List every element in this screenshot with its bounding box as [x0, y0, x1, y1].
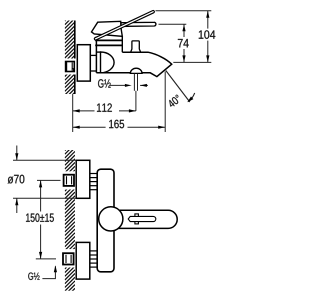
handle base: [92, 21, 123, 36]
lever slot bumps: [135, 214, 139, 224]
mixer body B2: [97, 169, 114, 272]
G1/2 arrows to aerator: [110, 84, 148, 87]
handle lever arm: [94, 10, 155, 40]
lever inner slot: [128, 216, 156, 221]
dimension 165: [73, 120, 166, 129]
escutcheon E3: [76, 242, 90, 279]
ribs R3: [90, 251, 97, 267]
label t165: 165: [109, 120, 124, 129]
spout outline: [96, 52, 171, 76]
diverter knob: [131, 41, 141, 52]
connector ribs (side view): [90, 55, 97, 71]
40 deg arc with arrow: [187, 93, 195, 102]
wall hatch (bottom view): [60, 140, 76, 300]
union nut S2: [64, 175, 74, 186]
spout tip ext line: [164, 72, 166, 133]
wall hatch (top view): [65, 11, 75, 114]
label t40: 40°: [167, 94, 182, 108]
handle grip bar: [121, 22, 156, 26]
cartridge dome (side): [101, 52, 115, 73]
escutcheon E2: [76, 160, 90, 198]
label t150: 150±15: [26, 213, 54, 222]
dim ext line (74 top): [159, 23, 187, 25]
ribs R2: [90, 174, 97, 190]
label tg12a: G½: [98, 79, 111, 88]
valve body B1: [96, 37, 101, 73]
label t112: 112: [97, 103, 112, 111]
aerator thread lines: [134, 74, 137, 91]
40 deg leader: [166, 71, 190, 103]
150+-15 dimension: [26, 180, 60, 259]
dimension 74: [178, 24, 189, 62]
cartridge circle: [99, 207, 123, 231]
label t70: ø70: [8, 175, 25, 184]
dim ext line top (104): [156, 10, 212, 12]
escutcheon E1: [77, 45, 90, 81]
aerator dome under spout: [130, 68, 142, 73]
dim ext line bottom (spout): [173, 61, 211, 63]
union nut S1 (behind wall): [63, 59, 77, 75]
G1/2 leader (bottom view): [42, 265, 57, 278]
label t104: 104: [199, 30, 216, 39]
dia 70 dim ext lines: [13, 160, 76, 198]
neck ring under handle: [95, 36, 122, 52]
aerator center ext line: [135, 91, 137, 111]
dimension 104: [199, 11, 216, 63]
lever stadium: [108, 210, 177, 228]
dia 70 arrows: [15, 146, 18, 214]
label t74: 74: [178, 39, 189, 47]
label tg12b: G½: [28, 272, 39, 279]
union nut S3: [63, 253, 74, 264]
wire wall extension line: [72, 94, 74, 132]
dimension 112: [73, 103, 136, 112]
